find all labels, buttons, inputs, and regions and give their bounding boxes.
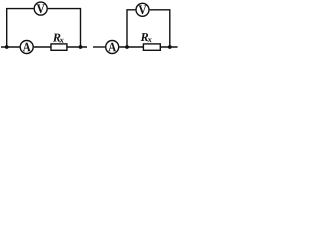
wire right circuit bottom-left lead <box>93 46 105 48</box>
wire left-loop left+top segment <box>7 9 34 47</box>
ammeter A2 circle <box>106 41 119 54</box>
resistor R2 label R <box>141 33 149 41</box>
wire R1 to right lead end <box>67 46 87 48</box>
resistor R1 label R <box>53 34 61 42</box>
ammeter A1 circle <box>20 41 33 54</box>
resistor R1 label subscript x <box>60 39 64 43</box>
wire R2 to right lead end <box>160 46 177 48</box>
wire right-loop left+top segment <box>127 10 135 47</box>
voltmeter V2 letter V <box>139 5 147 14</box>
node junction right circuit right <box>168 45 172 49</box>
resistor R2 body <box>143 44 160 50</box>
wire left-loop top-right+right segment <box>48 9 81 47</box>
wire right-loop top-right+right segment <box>150 10 170 47</box>
voltmeter V1 letter V <box>37 4 45 13</box>
voltmeter V2 circle <box>136 3 149 16</box>
node junction left circuit right <box>79 45 83 49</box>
wire left circuit bottom-left lead <box>1 46 20 48</box>
node junction left circuit left <box>5 45 9 49</box>
node junction right circuit left <box>125 45 129 49</box>
resistor R2 label subscript x <box>148 38 152 42</box>
wire A2 to node <box>119 46 143 48</box>
resistor R1 body <box>51 44 67 50</box>
voltmeter V1 circle <box>34 2 47 15</box>
ammeter A2 letter A <box>108 43 116 52</box>
wire A1 to R1 <box>34 46 51 48</box>
ammeter A1 letter A <box>23 43 31 52</box>
